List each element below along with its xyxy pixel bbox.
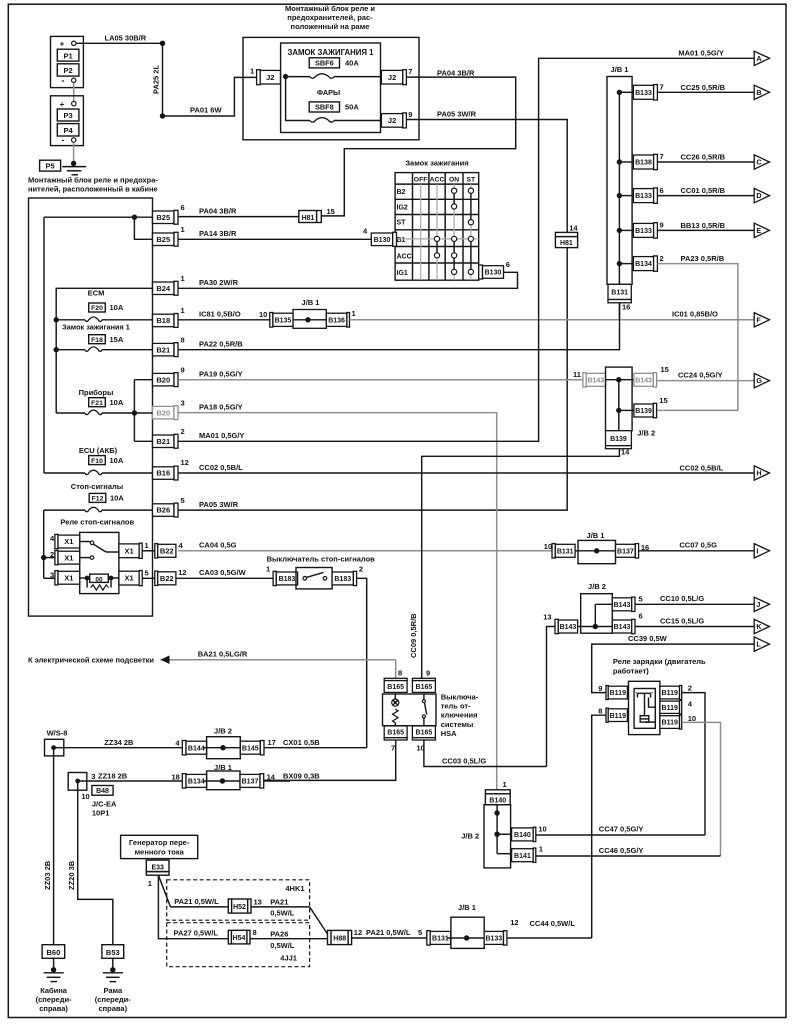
connector P4 [57, 124, 79, 136]
fuse SBF8 element [310, 118, 334, 122]
svg-text:11: 11 [573, 370, 581, 379]
junction dot B25 branch [132, 215, 137, 220]
svg-text:6: 6 [639, 611, 643, 620]
svg-text:B16: B16 [156, 469, 170, 478]
svg-text:менного тока: менного тока [135, 848, 185, 857]
connector B21 pin 2 [153, 435, 175, 448]
svg-text:PA01 6W: PA01 6W [190, 106, 222, 115]
svg-text:6: 6 [506, 260, 510, 269]
connector B25 pin 1 [153, 233, 175, 246]
svg-text:B144: B144 [188, 745, 205, 752]
svg-text:J2: J2 [266, 73, 274, 82]
connector B141 pin 1 [512, 849, 534, 862]
svg-text:IG2: IG2 [397, 204, 408, 211]
frame fuse box outer box [243, 37, 419, 139]
svg-text:ON: ON [449, 177, 459, 184]
connector B133 (CC44) [484, 931, 503, 944]
svg-text:16: 16 [622, 303, 630, 312]
svg-text:предохранителей, рас-: предохранителей, рас- [287, 13, 373, 22]
junction dot J/B2 CX01 [220, 745, 225, 750]
svg-text:I: I [756, 546, 758, 555]
svg-text:Кабина: Кабина [40, 986, 68, 995]
fuse F12 element [85, 507, 102, 511]
battery block 1 outline [51, 36, 84, 87]
svg-text:CC09 0,5R/B: CC09 0,5R/B [409, 613, 418, 658]
output arrow J [754, 597, 769, 611]
fuse F21 element [85, 410, 102, 414]
svg-text:B21: B21 [156, 437, 170, 446]
stop light switch box [296, 568, 332, 589]
relay contact bar [637, 692, 650, 694]
junction dot J/B1 CC07 [594, 548, 599, 553]
connector B133 pin 9 [633, 223, 653, 237]
svg-text:10: 10 [538, 825, 546, 834]
arrow to lighting circuit [161, 655, 170, 664]
svg-text:ZZ03 2B: ZZ03 2B [43, 860, 52, 890]
wire E33 to PA21 [158, 875, 170, 907]
splice H54 [228, 930, 250, 944]
svg-text:PA30 2W/R: PA30 2W/R [199, 278, 239, 287]
connector B26 pin 5 [153, 504, 175, 517]
svg-text:F21: F21 [91, 400, 103, 407]
connector X1 pin 1 (output) [119, 544, 139, 558]
svg-text:MA01 0,5G/Y: MA01 0,5G/Y [199, 431, 244, 440]
connector B165 pin 9 [412, 678, 435, 680]
svg-text:B1: B1 [397, 237, 406, 244]
svg-text:PA18 0,5G/Y: PA18 0,5G/Y [199, 402, 243, 411]
junction dot F20 [54, 317, 59, 322]
alternator label box [121, 835, 198, 858]
svg-text:1: 1 [266, 564, 270, 573]
HSA switch contact [423, 694, 425, 700]
svg-text:B135: B135 [275, 317, 292, 324]
connector B21 pin 8 [153, 343, 175, 356]
connector B139 pin 15 [634, 404, 653, 417]
svg-text:CA04 0,5G: CA04 0,5G [199, 540, 237, 549]
svg-text:9: 9 [426, 669, 430, 678]
wire B131-16 riser [619, 303, 621, 320]
svg-text:B183: B183 [334, 576, 351, 583]
svg-text:3: 3 [181, 399, 185, 408]
svg-text:F12: F12 [92, 496, 104, 503]
wire CC47 0,5G/Y [536, 834, 705, 836]
svg-text:12: 12 [354, 928, 362, 937]
connector B143 pin 6 [612, 620, 631, 633]
svg-text:8: 8 [181, 336, 185, 345]
fuse SBF8 50A label [309, 102, 339, 112]
table position guide lines (grey) [420, 184, 422, 280]
svg-text:SBF6: SBF6 [315, 59, 334, 68]
output arrow E [754, 223, 769, 237]
battery block 2 outline [51, 96, 84, 146]
connector B133 pin 6 [633, 189, 653, 203]
svg-text:B20: B20 [156, 375, 170, 384]
connector B143 pin 13 [555, 619, 558, 633]
wire PA30 2W/R [178, 272, 517, 288]
svg-text:Приборы: Приборы [79, 388, 114, 397]
svg-text:PA27 0,5W/L: PA27 0,5W/L [174, 929, 219, 938]
wire PA01 6W [163, 77, 257, 116]
svg-text:E33: E33 [151, 864, 164, 871]
svg-text:B48: B48 [96, 788, 109, 795]
connector P3 [57, 109, 79, 121]
connector B131 (J/B1 bottom) [608, 284, 631, 299]
connector J2 pin 9 [381, 114, 402, 128]
ground point W/S-8 [45, 739, 64, 756]
svg-text:J/B 2: J/B 2 [214, 726, 232, 735]
wire CC46 0,5G/Y [536, 855, 721, 857]
output arrow A [754, 51, 769, 65]
svg-text:B143: B143 [635, 377, 652, 384]
connector B137 (BX09) [240, 774, 260, 787]
svg-text:X1: X1 [124, 574, 133, 583]
svg-text:CC02 0,5B/L: CC02 0,5B/L [199, 463, 243, 472]
svg-text:ZZ18 2B: ZZ18 2B [98, 771, 128, 780]
svg-text:6: 6 [181, 203, 185, 212]
wire X1-1 to B22 [142, 550, 155, 552]
svg-text:J: J [756, 600, 760, 609]
svg-text:B133: B133 [635, 228, 652, 235]
svg-text:10: 10 [81, 792, 89, 801]
junction dot J/B1 B138 [617, 159, 622, 164]
relay armature [644, 693, 646, 715]
svg-text:B139: B139 [635, 408, 652, 415]
output arrow C [754, 155, 769, 169]
svg-text:(спереди-: (спереди- [95, 995, 131, 1004]
fuse F18 element [85, 347, 102, 351]
fuse F18 label 15A [89, 335, 106, 344]
fuse F10 label 10A [89, 456, 106, 465]
wire ZZ18 2B [78, 780, 183, 782]
relay coil symbol [640, 716, 649, 722]
svg-text:A: A [756, 54, 761, 63]
junction dot F21 output [132, 410, 137, 415]
wire CC39 0,5W [592, 644, 755, 693]
svg-text:ST: ST [466, 177, 476, 184]
svg-text:CC24 0,5G/Y: CC24 0,5G/Y [678, 370, 723, 379]
wire PA05 3W/R down to B26 row [178, 248, 567, 511]
connector B165 pin 8 [384, 678, 407, 680]
connector B165 pin 10 [412, 726, 435, 738]
svg-text:12: 12 [181, 458, 189, 467]
relay step to pin 4 [649, 698, 656, 708]
svg-text:H81: H81 [560, 240, 573, 247]
svg-text:BX09 0,3B: BX09 0,3B [283, 771, 320, 780]
charging relay inner box [634, 689, 655, 729]
svg-text:B138: B138 [635, 160, 652, 167]
svg-text:7: 7 [408, 67, 412, 76]
svg-text:B: B [756, 88, 761, 97]
svg-text:X1: X1 [64, 553, 73, 562]
wire BX09 0,3B [264, 780, 290, 782]
svg-text:ЗАМОК ЗАЖИГАНИЯ 1: ЗАМОК ЗАЖИГАНИЯ 1 [287, 48, 374, 57]
svg-text:P2: P2 [64, 66, 73, 75]
svg-text:13: 13 [254, 898, 262, 907]
ground (cab) [53, 958, 55, 970]
svg-text:CC01 0,5R/B: CC01 0,5R/B [681, 186, 726, 195]
junction box J/B 2 (vertical) [606, 367, 633, 431]
splice H81 (vertical) [555, 232, 577, 247]
connector B16 pin 12 [153, 467, 175, 480]
wire PA23 0,5R/B [657, 264, 738, 411]
wire PA25 2L (vertical) [162, 43, 164, 116]
connector B183 left [273, 571, 276, 585]
wire BX09 riser (B165-7) [264, 740, 396, 780]
svg-text:1: 1 [352, 309, 356, 318]
svg-text:Реле зарядки (двигатель: Реле зарядки (двигатель [613, 657, 706, 666]
svg-text:2: 2 [660, 254, 664, 263]
wire ZZ34 2B [54, 747, 183, 749]
ground joint J/C-EA [68, 773, 87, 791]
connector B20 pin 9 [153, 373, 175, 386]
connector P1 [57, 49, 79, 61]
fuse F20 row wire [56, 319, 85, 321]
fuse F12 label 10A [89, 493, 106, 502]
svg-text:Замок зажигания 1: Замок зажигания 1 [62, 323, 130, 332]
svg-text:J/B 2: J/B 2 [588, 582, 606, 591]
wire CC07 0,5G [639, 550, 755, 552]
connector B134 pin 2 [633, 257, 653, 271]
svg-text:J/B 2: J/B 2 [637, 428, 655, 437]
svg-text:B137: B137 [242, 779, 259, 786]
connector B140 pin 10 [512, 828, 534, 841]
connector B48 [92, 786, 113, 796]
svg-text:00: 00 [95, 576, 103, 583]
svg-text:Рама: Рама [103, 986, 123, 995]
svg-text:B143: B143 [614, 624, 631, 631]
wire CC03 0,5L/G [424, 740, 547, 767]
splice H81 [299, 211, 322, 223]
output arrow H [754, 466, 769, 480]
J/B1 internal bus [618, 92, 620, 284]
junction dot J/B1 BX09 [220, 778, 225, 783]
svg-text:1: 1 [181, 306, 185, 315]
svg-text:B165: B165 [387, 684, 404, 691]
svg-text:10: 10 [259, 310, 267, 319]
svg-text:B143: B143 [614, 602, 631, 609]
charging relay outer box [629, 681, 660, 734]
splice H52 [228, 899, 251, 913]
wire BB13 0,5R/B [657, 229, 754, 231]
wire CX01 0,5B [264, 747, 367, 749]
fuse F21 label 10A [89, 398, 106, 407]
junction dot PA25/PA01 [160, 113, 165, 118]
svg-text:B134: B134 [635, 261, 652, 268]
svg-text:H54: H54 [233, 935, 246, 942]
svg-text:5: 5 [639, 595, 643, 604]
svg-text:системы: системы [441, 720, 474, 729]
wire PA21 (2) [251, 906, 310, 908]
wire PA04 3B/R (from J2 pin 7) [321, 77, 515, 216]
wire PA04 3B/R to B25 [178, 216, 299, 218]
HSA lamp [392, 699, 399, 706]
svg-text:12: 12 [178, 568, 186, 577]
ground (battery) [71, 161, 76, 166]
svg-text:ZZ20 3B: ZZ20 3B [67, 860, 76, 890]
svg-text:8: 8 [398, 669, 402, 678]
svg-text:+: + [60, 100, 65, 109]
svg-text:B133: B133 [635, 193, 652, 200]
svg-text:LA05 30B/R: LA05 30B/R [105, 34, 147, 43]
connector B143 pin 11 [583, 373, 586, 387]
svg-text:PA26: PA26 [270, 929, 288, 938]
svg-text:IG1: IG1 [397, 270, 408, 277]
fuse F10 element [85, 470, 102, 474]
wire CC26 0,5R/B [657, 161, 754, 163]
svg-text:15: 15 [659, 396, 667, 405]
svg-text:2: 2 [181, 427, 185, 436]
svg-text:CC47 0,5G/Y: CC47 0,5G/Y [599, 825, 644, 834]
svg-text:CC03 0,5L/G: CC03 0,5L/G [442, 757, 486, 766]
svg-text:10A: 10A [110, 398, 124, 407]
output arrow B [754, 85, 769, 99]
svg-text:C: C [756, 158, 761, 167]
wire CC24 0,5G/Y [657, 380, 755, 382]
svg-text:B134: B134 [188, 779, 205, 786]
junction dot F18 [54, 347, 59, 352]
svg-text:X1: X1 [124, 546, 133, 555]
svg-text:1: 1 [250, 67, 254, 76]
output arrow D [754, 188, 769, 202]
relay switch contact [80, 541, 90, 543]
branch to B20-9 [134, 379, 152, 381]
connector J2 pin 7 [381, 70, 402, 84]
relay contact path (dashed) [634, 692, 655, 694]
bus from B24 (IG1 feed) [56, 288, 152, 413]
wire CC01 0,5R/B [657, 195, 754, 197]
junction dot LA05/PA25 [160, 41, 165, 46]
connector B135 [270, 313, 273, 328]
feed drop to SBF8 [286, 77, 310, 121]
svg-text:B119: B119 [662, 720, 678, 727]
output arrow F [754, 313, 769, 327]
connector B53 [102, 945, 124, 959]
connector B25 pin 6 [153, 211, 175, 224]
svg-text:PA14 3B/R: PA14 3B/R [199, 229, 237, 238]
connector B140 (top) [485, 790, 510, 794]
wire PA21 0,5W/L [171, 906, 229, 908]
svg-text:10A: 10A [110, 303, 124, 312]
J/B2 CC10 internal [593, 624, 598, 629]
svg-text:B133: B133 [635, 90, 652, 97]
connector B119 pin 8 [606, 708, 608, 722]
svg-text:B140: B140 [514, 832, 531, 839]
svg-text:справа): справа) [39, 1004, 68, 1013]
svg-text:0,5W/L: 0,5W/L [270, 941, 295, 950]
svg-text:BB13 0,5R/B: BB13 0,5R/B [681, 221, 726, 230]
svg-text:B165: B165 [416, 729, 433, 736]
svg-text:CC25 0,5R/B: CC25 0,5R/B [681, 83, 726, 92]
wire SBF8 to J2 pin 9 [334, 120, 381, 122]
svg-text:10P1: 10P1 [92, 808, 110, 817]
svg-text:+: + [60, 40, 65, 49]
svg-text:PA04 3B/R: PA04 3B/R [199, 206, 237, 215]
svg-text:50A: 50A [345, 103, 359, 112]
svg-text:H88: H88 [333, 935, 346, 942]
junction box J/B1 (CC07) [578, 540, 616, 563]
connector B144 [182, 741, 186, 755]
wire CA03 0,5G/W [176, 577, 273, 579]
svg-text:K: K [756, 622, 762, 631]
svg-text:F18: F18 [91, 337, 103, 344]
svg-text:P1: P1 [64, 51, 73, 60]
connector P2 [57, 64, 79, 76]
junction box J/B1 (BX09) [207, 771, 240, 790]
wire PA22 0,5R/B [178, 303, 619, 350]
fuse F18 row wire [56, 349, 85, 351]
svg-text:ECM: ECM [88, 289, 105, 298]
svg-text:B60: B60 [47, 948, 61, 957]
stop-signal relay box [80, 532, 119, 593]
svg-text:тель от-: тель от- [441, 702, 471, 711]
svg-text:PA21 0,5W/L: PA21 0,5W/L [174, 897, 219, 906]
junction box J/B 1 (vertical) [607, 77, 632, 285]
svg-text:B20: B20 [156, 408, 170, 417]
svg-text:1: 1 [539, 845, 543, 854]
connector B131 (CC44) [427, 931, 430, 945]
svg-text:К электрической схеме подсветк: К электрической схеме подсветки [28, 656, 154, 665]
fuse F20 element [85, 317, 102, 321]
svg-text:L: L [756, 640, 761, 649]
svg-text:8: 8 [598, 707, 602, 716]
svg-text:F: F [756, 315, 761, 324]
svg-text:H52: H52 [233, 904, 246, 911]
svg-text:J/B 1: J/B 1 [587, 531, 605, 540]
wire SBF6 to J2 pin 7 [334, 76, 381, 78]
connector E33 [146, 860, 169, 872]
svg-text:15: 15 [327, 207, 335, 216]
cab fuse box outline [29, 198, 153, 616]
svg-text:15A: 15A [110, 335, 124, 344]
wire to SBF6 [286, 76, 310, 78]
svg-text:B165: B165 [416, 684, 433, 691]
fuse SBF6 element [310, 74, 334, 78]
junction dot J/B1 B133 [617, 228, 622, 233]
svg-text:B119: B119 [610, 713, 626, 720]
output arrow G [754, 373, 769, 387]
engine harness box 4JJ1 (dashed) [167, 923, 310, 967]
wire PA21 0,5W/L (to J/B1) [352, 937, 427, 939]
svg-text:J/B 1: J/B 1 [458, 903, 476, 912]
svg-text:9: 9 [660, 221, 664, 230]
svg-text:B131: B131 [611, 290, 628, 297]
svg-text:9: 9 [598, 684, 602, 693]
svg-text:9: 9 [181, 366, 185, 375]
svg-text:Реле стоп-сигналов: Реле стоп-сигналов [60, 518, 134, 527]
svg-text:CC46 0,5G/Y: CC46 0,5G/Y [599, 846, 644, 855]
svg-text:B119: B119 [662, 690, 678, 697]
svg-text:P5: P5 [46, 162, 55, 171]
wire CA04 0,5G [178, 550, 552, 552]
junction dot J/B1 B133 [617, 193, 622, 198]
svg-text:Замок зажигания: Замок зажигания [405, 159, 468, 168]
connector B145 [240, 741, 260, 754]
svg-text:PA22 0,5R/B: PA22 0,5R/B [199, 340, 243, 349]
internal wire B135-B136 [293, 319, 326, 321]
svg-text:B2: B2 [397, 189, 406, 196]
wire PA19 0,5G/Y [178, 379, 583, 381]
connector B133 pin 7 [633, 85, 653, 99]
svg-text:B183: B183 [279, 576, 296, 583]
svg-text:W/S-8: W/S-8 [47, 728, 68, 737]
svg-text:ключения: ключения [441, 711, 478, 720]
svg-text:B22: B22 [160, 574, 174, 583]
connector B24 pin 1 [153, 282, 175, 295]
connector B165 pin 7 [384, 726, 407, 738]
connector B119 pin 10 [660, 716, 680, 729]
svg-text:18: 18 [172, 772, 180, 781]
svg-text:10A: 10A [110, 494, 124, 503]
